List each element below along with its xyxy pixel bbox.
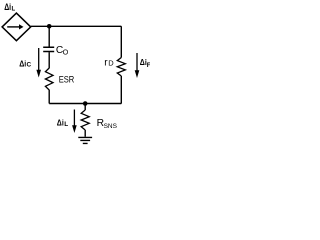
svg-text:Δi: Δi xyxy=(57,117,64,127)
svg-text:O: O xyxy=(63,48,69,57)
svg-text:L: L xyxy=(12,7,16,13)
svg-text:ESR: ESR xyxy=(59,73,75,84)
svg-text:Δi: Δi xyxy=(140,57,147,67)
svg-text:C: C xyxy=(27,62,32,69)
svg-text:D: D xyxy=(108,59,114,68)
svg-text:Δi: Δi xyxy=(19,58,26,68)
svg-text:L: L xyxy=(64,121,68,128)
svg-text:SNS: SNS xyxy=(104,123,118,130)
svg-text:F: F xyxy=(147,62,150,69)
svg-text:Δi: Δi xyxy=(4,2,11,12)
